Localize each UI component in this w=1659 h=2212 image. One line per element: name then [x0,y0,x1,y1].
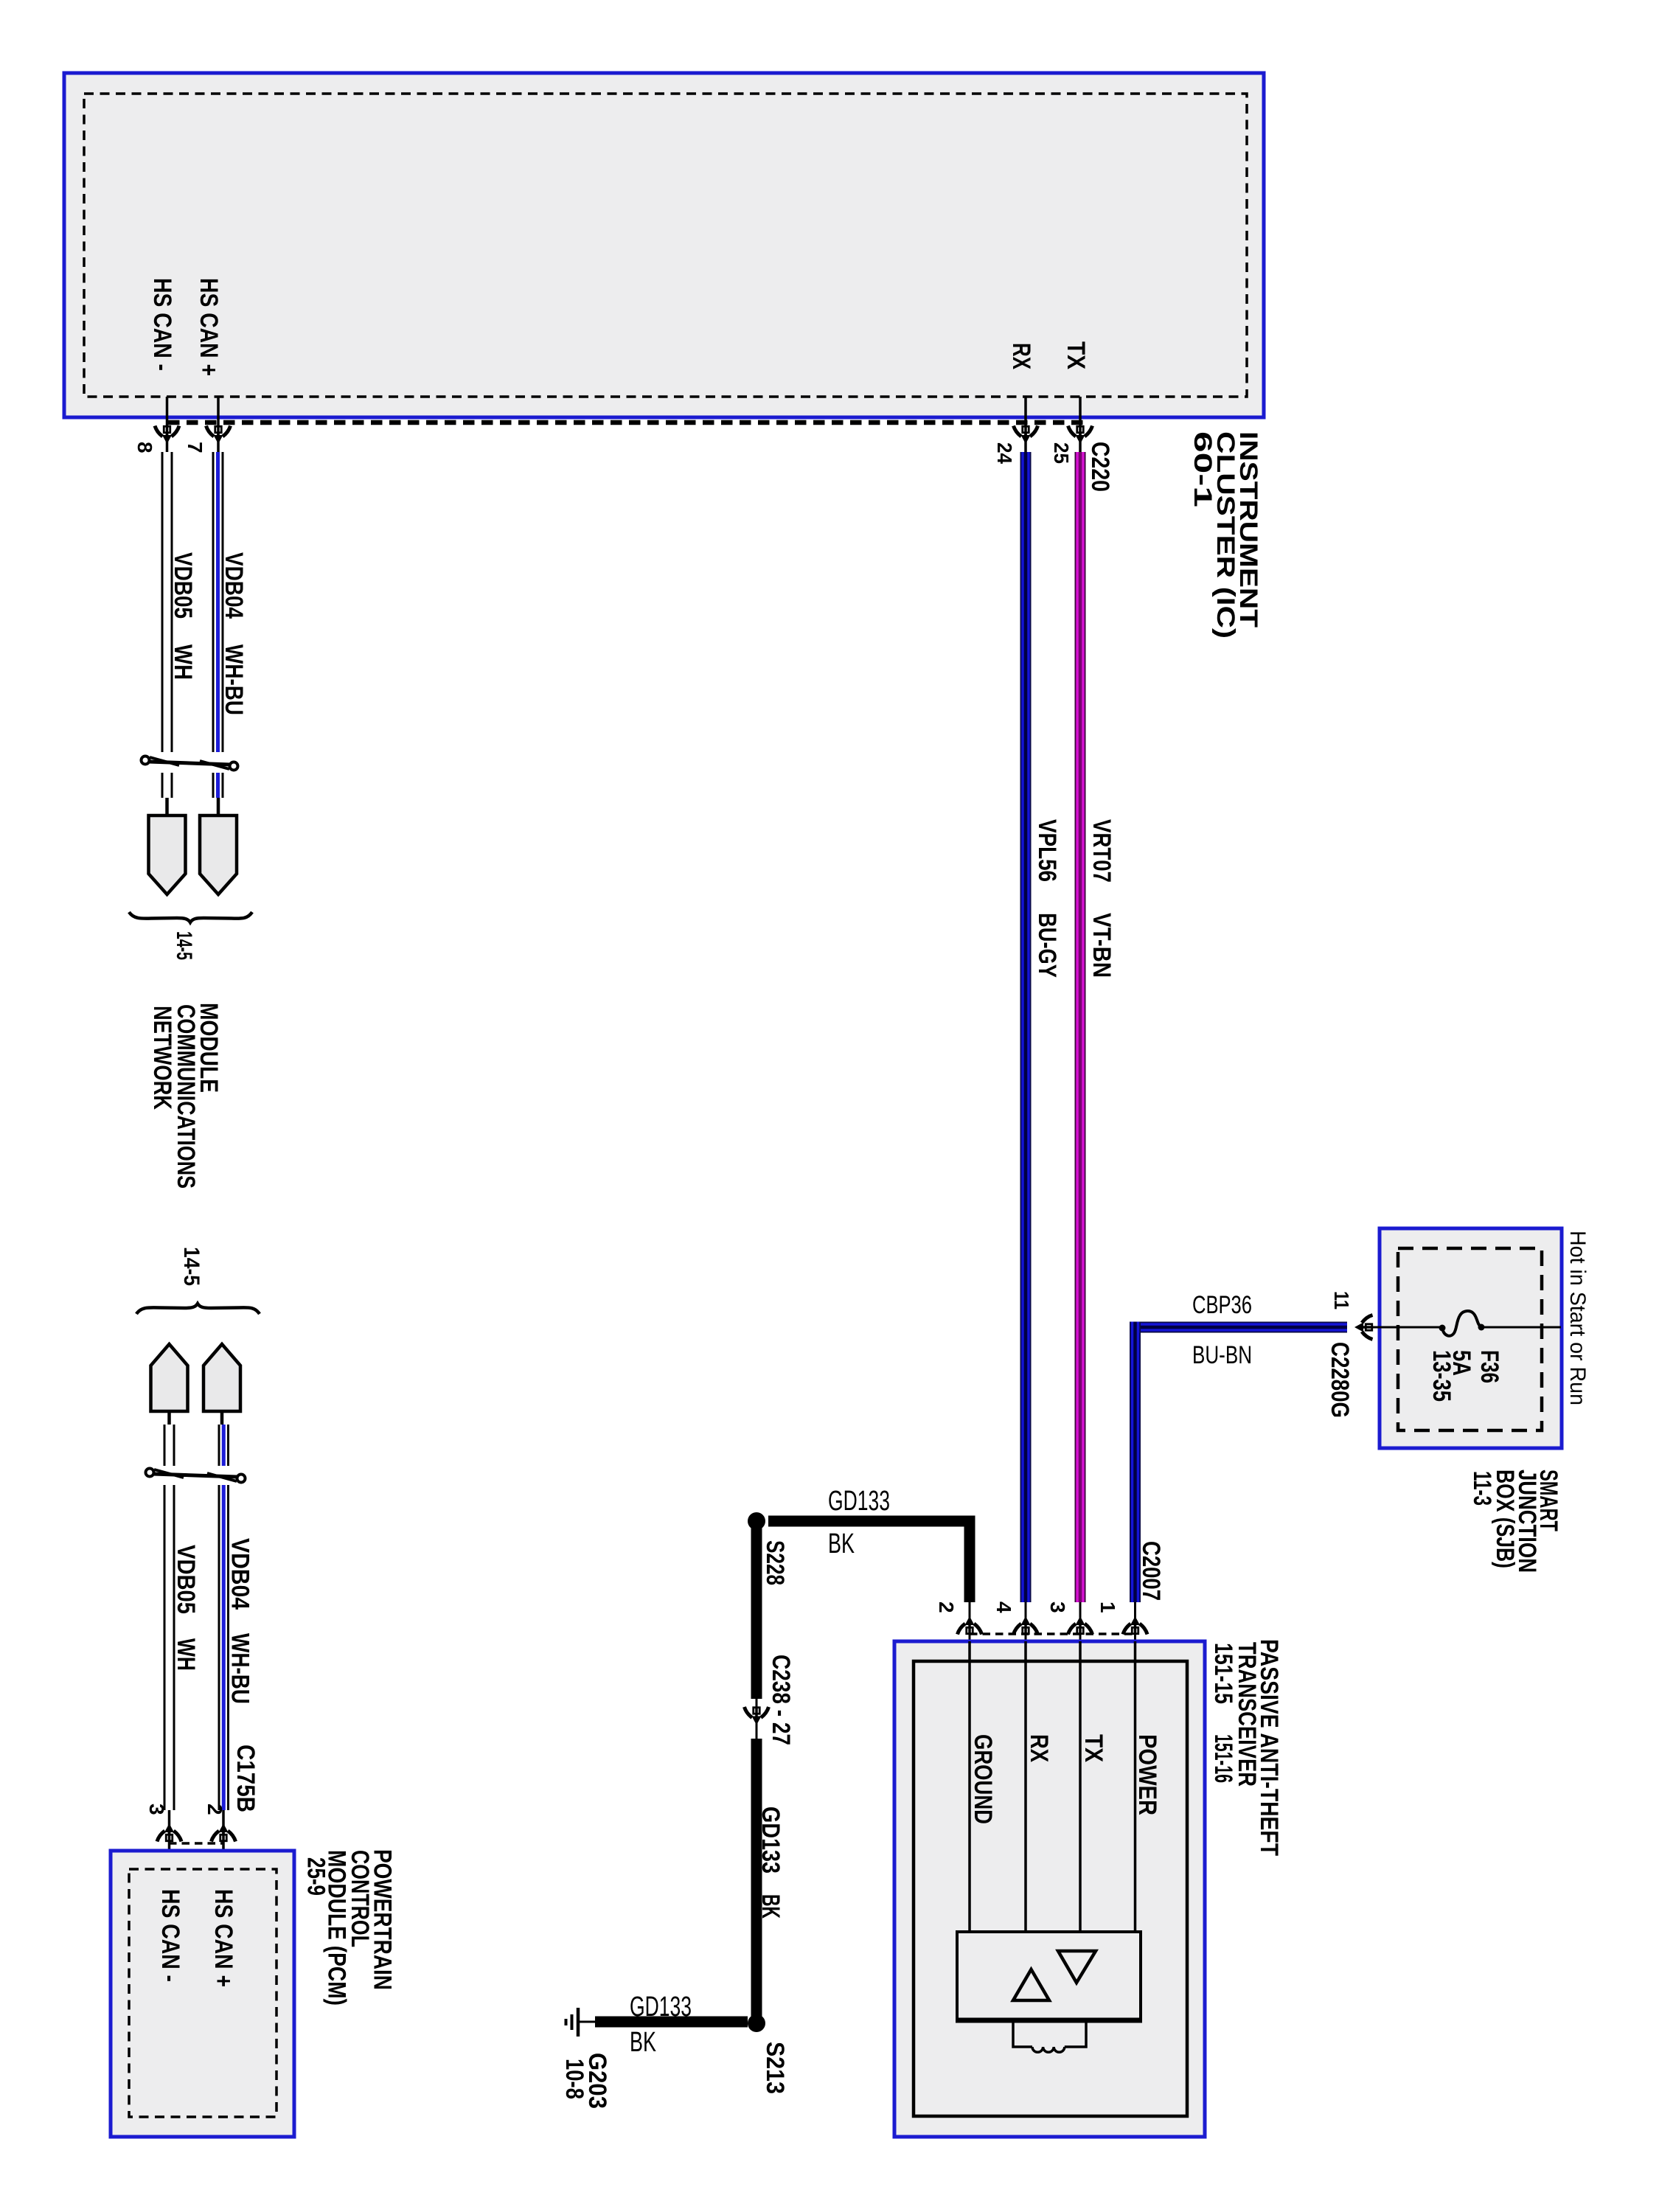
connector pin terminal (right, down) [200,815,237,894]
wire GD133 BK (S228 to transceiver) [768,1516,975,1527]
wire VPL56 BU-GY (RX) [1020,452,1032,1602]
svg-text:BU-BN: BU-BN [1192,1341,1252,1369]
svg-text:GD133: GD133 [630,1992,692,2023]
wire VDB05 WH to PCM (upper segment) [164,1425,166,1466]
wire VDB05 WH to PCM (lower segment) [164,1485,166,1810]
connector pin terminal (right, up) [204,1344,240,1411]
wire VDB04 WH-BU (pair, upper segment) [212,452,215,752]
lead from connector 2 [220,1411,224,1425]
module box: SMART JUNCTION BOX (SJB) [1380,1228,1562,1448]
svg-text:Hot in Start or Run: Hot in Start or Run [1565,1231,1590,1405]
IC inner dashed outline [84,94,1247,397]
IC pin 24 connector arrow [1014,426,1038,445]
svg-text:BK: BK [828,1528,855,1559]
PCM pins dashed link [169,1842,223,1845]
svg-text:25-9: 25-9 [302,1857,330,1896]
svg-text:VDB04: VDB04 [220,552,248,619]
module box: POWERTRAIN CONTROL MODULE (PCM) [111,1851,294,2137]
brace over terminals [136,1304,260,1314]
svg-text:7: 7 [184,442,206,453]
svg-text:25: 25 [1050,442,1073,464]
transceiver pin 3 lead [1079,1602,1082,1641]
PCM pin 2 connector arrow [212,1823,236,1842]
svg-text:S228: S228 [761,1540,789,1585]
wire CBP36 BU-BN (vertical) [1130,1322,1141,1603]
svg-text:4: 4 [992,1601,1015,1613]
module box: PASSIVE ANTI-THEFT TRANSCEIVER [894,1641,1205,2137]
svg-text:GD133: GD133 [757,1806,785,1874]
transceiver pin 2 lead [969,1602,971,1641]
wire VDB04 WH-BU to PCM (upper segment) [218,1425,220,1466]
IC pin 7 stub [217,397,220,452]
svg-text:C2280G: C2280G [1326,1342,1354,1418]
IC pin 24 stub [1024,397,1027,452]
svg-text:8: 8 [133,442,156,453]
svg-text:2: 2 [204,1804,226,1815]
IC pin 8 connector arrow [155,426,179,445]
svg-text:WH: WH [169,644,197,680]
PCM inner dashed outline [129,1869,276,2117]
lead into connector 1 [165,798,169,815]
svg-text:C220: C220 [1086,442,1114,492]
wire GD133 BK (C238 to S213) [751,1739,762,2023]
svg-text:151-15: 151-15 [1209,1643,1237,1704]
svg-text:60-1: 60-1 [1189,431,1217,507]
brace under terminals [129,912,252,922]
antenna coil [1013,2023,1032,2047]
wire VDB04 WH-BU to PCM (lower segment) [218,1485,220,1810]
svg-text:VDB05: VDB05 [169,552,197,619]
svg-text:VDB04: VDB04 [226,1538,254,1610]
svg-text:24: 24 [993,442,1016,464]
module box: INSTRUMENT CLUSTER (IC) [64,73,1264,417]
wire VDB05 WH (pair, upper segment) [161,452,164,752]
svg-text:3: 3 [145,1804,168,1815]
connector C220 dashed line [168,420,1085,425]
wire VDB04 WH-BU (pair, lower segment) [212,773,215,798]
ground G203 symbol [578,2021,595,2023]
svg-text:TX: TX [1079,1734,1107,1762]
connector pin terminal (left, up) [151,1344,188,1411]
IC pin 8 stub [166,397,169,452]
svg-text:RX: RX [1007,343,1035,369]
SJB inner dashed outline [1398,1248,1542,1430]
wire VRT07 VT-BN (TX) [1075,452,1086,1602]
splice S228 [748,1512,765,1530]
svg-text:VT-BN: VT-BN [1088,913,1116,978]
transceiver pin 4 lead [1025,1602,1027,1641]
svg-text:VRT07: VRT07 [1088,819,1116,883]
svg-text:11: 11 [1330,1291,1353,1310]
wire GD133 BK (S213 to ground) [595,2017,748,2028]
svg-text:C175B: C175B [232,1745,260,1812]
wire GD133 BK (corner down to pin 2) [964,1516,975,1602]
PCM pin 2 lead [222,1810,225,1869]
svg-text:GROUND: GROUND [969,1734,997,1824]
svg-text:HS CAN -: HS CAN - [156,1889,184,1982]
svg-text:TX: TX [1062,341,1090,369]
splice S213 [748,2014,765,2032]
svg-text:BU-GY: BU-GY [1033,913,1061,978]
svg-text:C238 - 27: C238 - 27 [767,1655,795,1745]
fuse feed line (right) [1481,1326,1561,1329]
svg-text:2: 2 [935,1601,958,1613]
svg-text:F36: F36 [1475,1350,1503,1383]
transceiver inner rectangle [914,1661,1187,2116]
svg-text:13-35: 13-35 [1427,1350,1455,1402]
svg-text:3: 3 [1046,1601,1069,1613]
svg-text:10-8: 10-8 [560,2059,588,2099]
IC pin 25 stub [1079,397,1082,452]
svg-text:S213: S213 [761,2042,789,2094]
svg-text:WH: WH [172,1638,200,1671]
lead into connector 2 [217,798,220,815]
transceiver internal wire RX [1024,1641,1027,1932]
C238 break upper lead [756,1699,758,1739]
svg-text:HS CAN +: HS CAN + [209,1889,237,1987]
IC pin 25 connector arrow [1068,426,1093,445]
transceiver pin 3 arrow [1068,1616,1093,1635]
fuse line to pin 11 [1360,1326,1442,1329]
transponder triangle (down) [1058,1951,1096,1983]
C238 connector arrow [745,1707,769,1725]
svg-text:GD133: GD133 [828,1486,890,1517]
fuse F36 [1442,1311,1481,1336]
transceiver pin 2 arrow [958,1616,982,1635]
svg-text:151-16: 151-16 [1209,1734,1237,1783]
svg-text:VDB05: VDB05 [172,1545,200,1614]
PCM pin 3 lead [168,1810,171,1869]
transponder triangle (up) [1013,1969,1049,2000]
svg-text:BK: BK [630,2027,656,2058]
svg-text:BK: BK [757,1894,785,1919]
transceiver pin 1 lead [1134,1602,1136,1641]
transceiver internal wire TX [1079,1641,1082,1932]
transceiver pins dashed link [970,1632,1135,1635]
PCM pin 3 connector arrow [157,1823,181,1842]
svg-text:VPL56: VPL56 [1033,819,1061,882]
SJB pin 11 arrow [1354,1315,1373,1340]
IC pin 7 connector arrow [206,426,231,445]
svg-text:RX: RX [1025,1734,1053,1762]
svg-text:HS CAN +: HS CAN + [195,278,223,376]
transceiver pin 4 arrow [1014,1616,1038,1635]
wire CBP36 BU-BN (horizontal) [1130,1322,1347,1333]
twisted pair symbol [142,757,238,771]
svg-text:11-3: 11-3 [1468,1471,1496,1506]
svg-text:14-5: 14-5 [172,931,196,960]
lead from connector 1 [167,1411,171,1425]
svg-text:WH-BU: WH-BU [226,1633,254,1704]
svg-text:14-5: 14-5 [179,1247,204,1286]
connector pin terminal (left, down) [149,815,186,894]
transceiver pin 1 arrow [1123,1616,1147,1635]
svg-text:WH-BU: WH-BU [220,644,248,715]
svg-text:C2007: C2007 [1137,1541,1165,1601]
wire VDB05 WH (pair, lower segment) [161,773,164,798]
svg-text:POWER: POWER [1133,1734,1161,1815]
transceiver internal wire POWER [1134,1641,1137,1932]
transceiver internal wire GROUND [968,1641,971,1932]
svg-text:HS CAN -: HS CAN - [148,278,176,371]
svg-text:1: 1 [1096,1601,1119,1613]
svg-text:CBP36: CBP36 [1192,1291,1252,1319]
svg-text:NETWORK: NETWORK [148,1006,176,1110]
transponder symbol box [957,1932,1141,2020]
wire GD133 BK (S228 down) [751,1521,762,1699]
twisted pair symbol (lower) [146,1469,246,1483]
